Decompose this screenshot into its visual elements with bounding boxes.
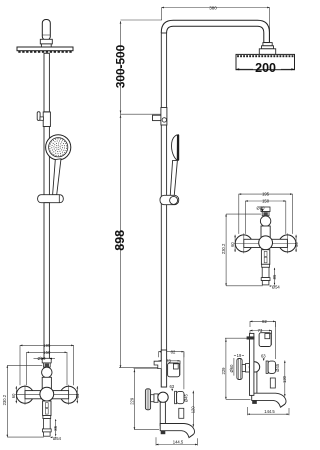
holder (side): [160, 195, 179, 204]
head nut (side): [263, 43, 272, 46]
hand shower head: [46, 135, 71, 160]
rain head disc (edge view): [17, 47, 73, 51]
hand shower handle (side): [170, 160, 177, 196]
riser pipe (side): [161, 33, 166, 387]
wall mount bracket (side): [153, 115, 162, 120]
dim 898: [120, 114, 122, 367]
wall bracket block: [43, 112, 50, 127]
head collar nut: [40, 39, 52, 44]
hand shower (side): [172, 135, 178, 161]
slider holder: [38, 195, 64, 203]
faucet front view (in column): [2, 343, 80, 441]
hand shower handle: [53, 159, 61, 195]
dim O60: [233, 358, 235, 376]
gooseneck arm: [161, 20, 269, 42]
wall hatch bar: [247, 336, 255, 339]
riser pipe upper: [44, 53, 49, 112]
top pipe: [42, 20, 50, 41]
svg-text:200: 200: [255, 61, 276, 75]
pipe over faucet zone: [161, 350, 166, 387]
svg-text:19: 19: [237, 353, 242, 358]
svg-text:Ø30: Ø30: [257, 206, 266, 211]
bracket lever: [37, 112, 40, 121]
riser pipe lower: [44, 203, 49, 361]
dim 200: [236, 68, 253, 70]
handle bracket steps: [154, 361, 161, 368]
svg-text:380: 380: [209, 5, 217, 10]
dim 380 top: [162, 7, 270, 9]
dim 300-500: [120, 21, 122, 114]
svg-text:300-500: 300-500: [114, 44, 128, 88]
faucet side view (in column): [129, 349, 197, 445]
head disc (side): [236, 54, 295, 69]
riser pipe mid: [44, 127, 49, 196]
svg-text:Ø60: Ø60: [229, 364, 234, 373]
wall plate: [250, 333, 254, 395]
svg-text:898: 898: [113, 230, 127, 251]
dimension arrowheads (380 / 300-500 / 898): [162, 7, 164, 9]
